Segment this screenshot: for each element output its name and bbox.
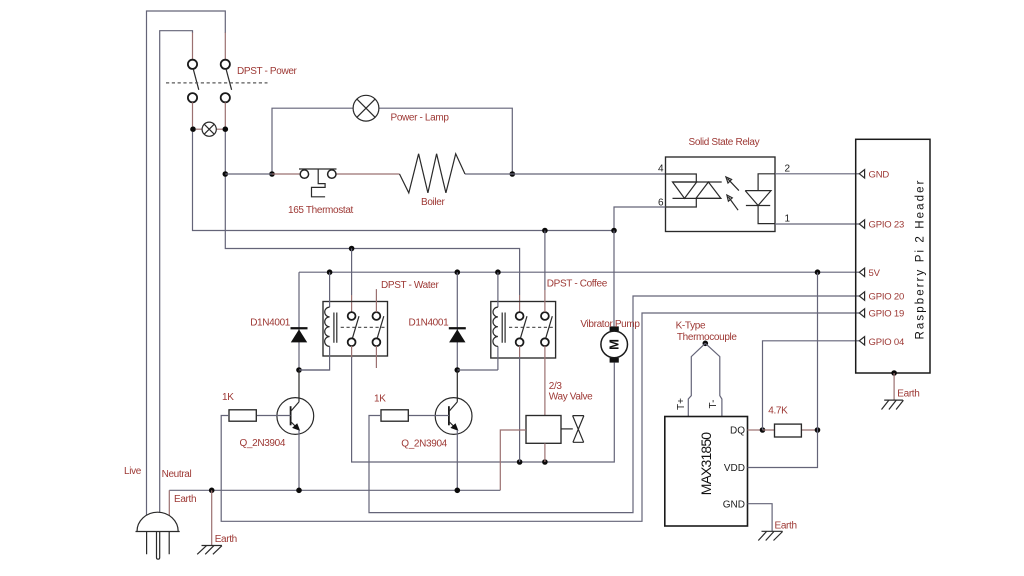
wire Q2 emitter down: [456, 430, 458, 491]
wire Live loop top: [147, 11, 226, 516]
junction dot diode2 bottom: [455, 367, 461, 373]
svg-text:4: 4: [658, 164, 664, 175]
wire diode2 to coffee coil: [457, 369, 498, 371]
solid state relay U2 box: [666, 157, 776, 232]
svg-text:Power - Lamp: Power - Lamp: [391, 113, 450, 124]
diode D1N4001 #2: [449, 327, 466, 342]
switch S1 pole A bottom contact: [188, 93, 197, 102]
wire thermostat leads: [272, 173, 400, 175]
resistor 4.7K leads: [763, 429, 818, 431]
wire live run to relay poles: [225, 132, 519, 295]
junction dot coffee pole on neutral: [542, 228, 548, 234]
wire plug earth riser: [168, 490, 170, 516]
SSR pin 6 internal lead: [666, 198, 697, 207]
wire DQ lead: [748, 429, 763, 431]
svg-text:1K: 1K: [374, 394, 386, 405]
pin GPIO23 triangle: [859, 220, 864, 228]
resistor 1K #2: [381, 410, 408, 421]
svg-text:DPST - Coffee: DPST - Coffee: [547, 279, 608, 290]
wire RPi earth drop: [893, 373, 895, 400]
junction dot live at boiler branch: [223, 171, 229, 177]
wire switched water output: [351, 346, 353, 358]
pin GPIO04 triangle: [859, 337, 864, 345]
wire SSR pin2 to GND pin: [775, 173, 859, 175]
switch S1 pole A lead bottom: [192, 102, 194, 126]
svg-text:4.7K: 4.7K: [768, 406, 788, 417]
junction dot valve out: [542, 459, 548, 465]
wire 5V rail: [299, 271, 859, 273]
relay K1 right pole stubs: [375, 289, 377, 368]
pilot lamp: [202, 122, 216, 136]
junction dot RPi GND bottom: [891, 370, 897, 376]
switch S1 pole B lead bottom: [224, 102, 226, 126]
power lamp branch left riser: [272, 108, 353, 174]
switch S1 pole B top contact: [221, 60, 230, 69]
svg-text:T+: T+: [676, 398, 687, 410]
diode D1N4001 #1: [291, 327, 308, 342]
wire SSR pin1 to GPIO23 pin: [775, 223, 859, 225]
relay K1 coil: [299, 272, 337, 370]
SSR input LED: [745, 174, 775, 224]
wire coffee right pole to valve: [544, 346, 546, 416]
ground earth symbol MAX: [758, 531, 782, 540]
svg-text:GPIO 20: GPIO 20: [869, 292, 905, 303]
svg-text:1: 1: [785, 214, 791, 225]
junction dot Q1 emitter node: [296, 488, 302, 494]
svg-text:5V: 5V: [869, 268, 881, 279]
wire Neutral loop top: [160, 31, 193, 513]
relay K1 blades: [353, 316, 384, 338]
wire earth drop: [211, 490, 213, 545]
resistor 1K #1: [229, 410, 256, 421]
wire Q2 base: [408, 415, 449, 417]
pin GPIO20 triangle: [859, 292, 864, 300]
svg-text:Vibrator Pump: Vibrator Pump: [580, 319, 640, 330]
junction dot SSR/motor on neutral: [611, 228, 617, 234]
ground earth symbol RPi: [882, 400, 904, 409]
svg-text:Q_2N3904: Q_2N3904: [240, 438, 286, 449]
pin GPIO19 triangle: [859, 309, 864, 317]
relay K2 coil: [493, 272, 505, 370]
lamp Power-Lamp: [353, 95, 379, 121]
wire coffee right pole to neutral: [544, 231, 546, 291]
transistor Q2 2N3904: [435, 370, 472, 434]
svg-text:DQ: DQ: [730, 426, 745, 437]
resistor 4.7K: [775, 424, 802, 437]
svg-text:DPST - Water: DPST - Water: [381, 280, 439, 291]
junction dot DQ node: [760, 427, 766, 433]
relay K2 dashed actuator: [509, 326, 554, 328]
wire earth run: [169, 489, 500, 491]
transistor Q1 2N3904: [277, 370, 314, 434]
svg-text:D1N4001: D1N4001: [408, 318, 449, 329]
switch S1 pole A blade: [193, 69, 199, 90]
svg-text:MAX31850: MAX31850: [698, 432, 714, 496]
svg-text:Raspberry Pi 2 Header: Raspberry Pi 2 Header: [914, 178, 926, 339]
thermocouple TC1 legs: [688, 343, 722, 416]
wire motor top: [613, 231, 615, 327]
thermostat TH1 165: [299, 169, 337, 197]
wire Q1 emitter down: [298, 430, 300, 491]
switch S1 DPST-Power pole B lead top: [224, 33, 226, 60]
plug P1 mains: [136, 512, 180, 559]
pilot lamp stubs: [196, 128, 223, 130]
wire Q1 base: [256, 415, 290, 417]
svg-text:VDD: VDD: [724, 463, 745, 474]
wire neutral run to SSR/motor node: [193, 132, 615, 231]
power lamp branch right riser: [379, 108, 513, 174]
svg-text:D1N4001: D1N4001: [250, 318, 291, 329]
junction dot lamp right: [510, 171, 516, 177]
wire diode1 branch: [298, 272, 300, 370]
junction dot Q2 emitter node: [455, 488, 461, 494]
relay K2 DPST-Coffee box: [491, 302, 556, 359]
wire GPIO04 to DQ: [763, 341, 860, 430]
relay K2 contacts: [516, 312, 549, 346]
switch S1 DPST-Power pole A lead top: [192, 33, 194, 60]
junction dot lamp left: [269, 171, 275, 177]
wire water relay left pole: [351, 249, 353, 296]
svg-text:2: 2: [785, 164, 791, 175]
svg-text:Boiler: Boiler: [421, 197, 445, 208]
junction dot water relay pole branch: [349, 246, 355, 252]
junction dot coffee coil 5V: [495, 269, 501, 275]
svg-text:165 Thermostat: 165 Thermostat: [288, 205, 354, 216]
svg-text:Solid State Relay: Solid State Relay: [689, 137, 760, 148]
wire valve bottom lead: [544, 443, 546, 462]
svg-text:Way Valve: Way Valve: [549, 392, 593, 403]
svg-text:GND: GND: [869, 169, 890, 180]
switch S1 pole B blade: [226, 69, 232, 90]
junction dot diode1 bottom: [296, 367, 302, 373]
switch S1 pole A top contact: [188, 60, 197, 69]
resistor Boiler heating element: [400, 154, 466, 193]
svg-text:GPIO 23: GPIO 23: [869, 220, 905, 231]
wire coffee left pole down: [519, 346, 521, 358]
valve butterfly symbol: [561, 416, 584, 443]
svg-text:Neutral: Neutral: [162, 469, 192, 480]
relay K1 DPST-Water box: [323, 302, 388, 357]
relay K1 contacts: [348, 312, 381, 346]
wire diode1 to water coil: [299, 369, 330, 371]
wire GPIO20 to 1K2 loop: [369, 296, 859, 513]
wire MAX GND to earth: [748, 504, 773, 532]
thermocouple TC1 junction dot: [703, 341, 709, 347]
junction dot left of pilot lamp: [190, 126, 196, 132]
IC U1 MAX31850 box: [665, 417, 748, 527]
junction dot right of pilot lamp: [223, 126, 229, 132]
svg-text:M: M: [607, 339, 622, 350]
wire GPIO19 to 1K1 loop: [221, 313, 859, 521]
svg-text:1K: 1K: [222, 392, 234, 403]
relay K2 blades: [521, 316, 553, 338]
switch S1 pole B bottom contact: [221, 93, 230, 102]
pin GND triangle: [859, 170, 864, 178]
SSR pin 4 internal lead: [666, 174, 697, 182]
wire diode2 branch: [456, 272, 458, 370]
junction dot pullup right: [815, 427, 821, 433]
svg-text:Earth: Earth: [174, 494, 196, 505]
svg-text:T-: T-: [708, 400, 719, 409]
svg-text:K-Type: K-Type: [676, 321, 706, 332]
junction dot water coil 5V: [327, 269, 333, 275]
junction dot diode2 5V: [455, 269, 461, 275]
ground earth symbol bottom-left: [197, 546, 222, 555]
pin 5V triangle: [859, 268, 864, 276]
valve V1 solenoid box: [526, 416, 561, 444]
junction dot pullup 5V: [815, 269, 821, 275]
junction dot earth symbol drop: [209, 488, 215, 494]
svg-text:GND: GND: [723, 499, 745, 510]
SSR triac: [673, 182, 722, 198]
wire SSR pin6 to neutral node: [614, 207, 666, 231]
svg-text:Earth: Earth: [775, 521, 797, 532]
junction dot coffee left pole out: [517, 459, 523, 465]
motor M1 Vibrator Pump: [601, 326, 628, 362]
svg-text:DPST - Power: DPST - Power: [237, 66, 298, 77]
switch S1 gang dashed link: [166, 82, 268, 84]
svg-text:Earth: Earth: [897, 388, 919, 399]
svg-text:Thermocouple: Thermocouple: [677, 332, 738, 343]
svg-text:GPIO 19: GPIO 19: [869, 309, 905, 320]
wire boiler row: [225, 173, 665, 175]
svg-text:Live: Live: [124, 466, 142, 477]
svg-text:2/3: 2/3: [549, 381, 563, 392]
wire valve left lead: [500, 430, 526, 490]
relay K1 dashed actuator: [341, 326, 386, 328]
svg-text:Q_2N3904: Q_2N3904: [401, 439, 447, 450]
svg-text:Earth: Earth: [215, 534, 237, 545]
svg-text:GPIO 04: GPIO 04: [869, 337, 905, 348]
SSR opto arrows: [726, 177, 739, 210]
IC RPi header box: [856, 139, 930, 373]
wire 5V to VDD: [748, 272, 818, 467]
